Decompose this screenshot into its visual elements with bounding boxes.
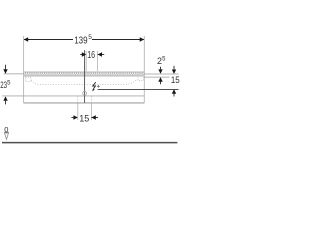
lightning symbol (93, 82, 96, 89)
sealing strip dots (23, 72, 144, 74)
dim 15 right arrows (173, 66, 175, 70)
ref line left top (23.5 upper) (4, 73, 24, 75)
cabinet left edge + extension line (23, 36, 25, 103)
level zero triangle (5, 133, 9, 139)
svg-text:16: 16 (87, 49, 95, 61)
dim 15 bottom arrows (71, 117, 73, 119)
svg-text:15: 15 (171, 75, 180, 85)
drain center line (84, 50, 86, 103)
dim 139.5 line (24, 39, 73, 41)
hidden pipe dashed line (31, 79, 138, 84)
dim 16 arrows (80, 54, 82, 56)
cabinet right edge + extension line (143, 36, 145, 103)
ref line B right (2.5 lower) (144, 76, 169, 78)
rear cutout dashed edges (77, 96, 79, 103)
drain circle (83, 91, 87, 95)
svg-text:5: 5 (88, 34, 92, 41)
dim 23.5 arrows (5, 65, 7, 70)
ref line A right (2.5 upper) (144, 73, 178, 75)
floor line (2, 142, 177, 144)
right trap box (dashed) (138, 76, 144, 81)
cabinet bottom edge (24, 102, 145, 104)
svg-text:139: 139 (74, 36, 88, 47)
bottom 15 extension lines (77, 103, 79, 120)
level zero underline (4, 131, 8, 133)
electrical plus marker (97, 85, 100, 87)
svg-text:5: 5 (7, 80, 11, 86)
cabinet inner bottom line (2, 95, 144, 97)
left trap box (dashed) (25, 77, 31, 81)
svg-text:23: 23 (0, 80, 7, 90)
svg-text:15: 15 (79, 114, 89, 124)
dim 2.5 arrows (160, 67, 162, 70)
cabinet top edge (24, 70, 145, 72)
electrical connection line (98, 89, 179, 91)
svg-text:5: 5 (162, 56, 166, 62)
16 extension lines (85, 51, 87, 71)
washbasin plate bottom line (24, 75, 145, 77)
